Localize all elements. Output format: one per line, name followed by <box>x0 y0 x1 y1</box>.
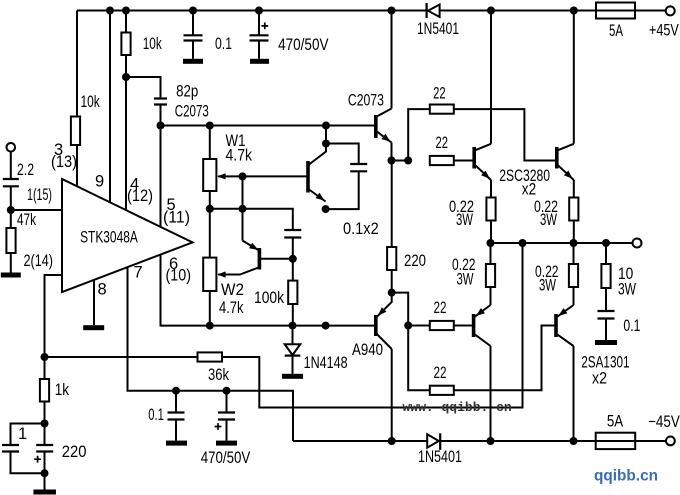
transistor Q1 C2073 (driver NPN) <box>376 109 392 143</box>
junction <box>388 157 396 165</box>
svg-text:47k: 47k <box>17 211 37 229</box>
wire 1k to 220 cap <box>44 402 46 446</box>
resistor 22 #3 <box>430 321 454 330</box>
svg-text:22: 22 <box>434 364 447 382</box>
junction <box>206 205 214 213</box>
wire +45V top rail <box>77 10 666 12</box>
svg-text:1N4148: 1N4148 <box>304 354 348 372</box>
wire 2SC3280 right collector <box>573 11 575 144</box>
junction <box>122 73 130 81</box>
wire bias base to 100k node <box>259 258 292 260</box>
svg-text:3W: 3W <box>456 211 473 229</box>
wire wiper tie-down <box>242 176 244 240</box>
wire rail to 0.1 cap <box>192 11 194 36</box>
svg-text:9: 9 <box>95 173 104 191</box>
svg-text:0.1x2: 0.1x2 <box>343 220 379 238</box>
wire cap B to 100k <box>292 238 294 281</box>
junction <box>487 437 495 445</box>
junction <box>41 353 49 361</box>
terminal output <box>633 239 642 248</box>
junction <box>322 205 330 213</box>
wire cap link <box>326 144 359 165</box>
wire to 22 upper <box>408 109 430 160</box>
wire emitter node to 220 <box>391 161 393 248</box>
wire feedback node to 36k <box>45 356 198 358</box>
wire output to 0.22 lower-left <box>490 243 492 264</box>
svg-text:1k: 1k <box>55 381 70 399</box>
wire 10k to pin 3 <box>76 145 78 186</box>
junction <box>602 239 610 247</box>
wire A940 emitter to base resistors <box>392 293 430 391</box>
wire top-left drop to 10k <box>76 11 78 117</box>
diode 1N5401 (bottom) <box>427 433 440 450</box>
junction <box>487 7 495 15</box>
wire neg line to 0.1 cap <box>175 391 177 413</box>
junction <box>404 157 412 165</box>
resistor 47k <box>6 228 15 253</box>
svg-text:82p: 82p <box>176 82 198 100</box>
ground (470/50V top) <box>250 59 269 64</box>
svg-text:(11): (11) <box>163 209 190 227</box>
svg-text:470/50V: 470/50V <box>278 36 328 54</box>
resistor 10 3W <box>601 264 610 288</box>
svg-text:22: 22 <box>434 299 447 317</box>
svg-text:−45V: −45V <box>648 413 680 431</box>
wire 10 3W to 0.1 <box>605 288 607 311</box>
wire node4 to 82p <box>126 77 161 99</box>
wire output to 0.22 lower-right <box>573 243 575 264</box>
resistor 22 #1 <box>430 105 454 114</box>
wire 47k to ground <box>10 253 12 273</box>
svg-text:3W: 3W <box>539 277 556 295</box>
junction <box>570 7 578 15</box>
svg-text:1(15): 1(15) <box>27 186 52 204</box>
wire W1 to W2 <box>209 191 211 258</box>
svg-text:4.7k: 4.7k <box>219 299 244 317</box>
svg-text:C2073: C2073 <box>175 103 209 121</box>
svg-text:+45V: +45V <box>649 22 679 40</box>
terminal +45V <box>666 6 675 15</box>
wire 220 cap to ground <box>44 452 46 490</box>
ground (470/50V lower) <box>216 441 237 446</box>
svg-text:7: 7 <box>134 263 143 281</box>
junction <box>322 322 330 330</box>
capacitor 0.1x2 A <box>350 164 367 171</box>
ground (0.1 lower-left) <box>166 441 187 446</box>
wire node to pin 1 <box>11 209 62 211</box>
potentiometer W1 4.7k <box>203 159 225 191</box>
wire 22 to right 2SA1301 base <box>454 326 556 391</box>
wire 82p to pin 5 <box>160 105 162 227</box>
wire 0.1 cap to ground <box>192 41 194 59</box>
wire 100k to pin6 line <box>292 304 294 326</box>
junction <box>7 206 15 214</box>
resistor 22 #2 <box>430 156 454 165</box>
wire pin 8 to ground <box>93 280 95 325</box>
junction <box>289 322 297 330</box>
wire 470/50V to ground <box>258 41 260 59</box>
capacitor 1 <box>2 445 19 452</box>
wire 2SC3280 left emitter <box>490 180 492 198</box>
wire 36k to output (feedback) <box>222 243 523 408</box>
wire 0.1 to ground <box>605 319 607 341</box>
svg-text:4.7k: 4.7k <box>226 147 253 165</box>
transistor bias NPN (upper) <box>308 126 326 202</box>
ground (input) <box>1 273 21 278</box>
wire 0.22 to output <box>490 221 492 244</box>
junction <box>239 205 247 213</box>
svg-text:STK3048A: STK3048A <box>80 228 138 246</box>
ground (220) <box>33 490 56 495</box>
svg-text:470/50V: 470/50V <box>201 449 251 467</box>
junction <box>255 7 263 15</box>
junction <box>289 255 297 263</box>
junction <box>223 387 231 395</box>
wire 10k to pin 4 <box>125 55 127 210</box>
wire C2073 collector to rail <box>391 11 393 109</box>
junction <box>404 322 412 330</box>
wire 2SC3280 right emitter <box>573 180 575 198</box>
wire pin 6 line <box>161 255 376 326</box>
svg-text:10k: 10k <box>81 93 101 111</box>
junction <box>388 7 396 15</box>
wire cap 1 bottom <box>11 452 45 474</box>
resistor 1k <box>40 379 49 402</box>
wire node to 1N4148 <box>292 326 294 344</box>
wire pin 9 line <box>109 11 111 203</box>
junction <box>206 122 214 130</box>
wire W2 to pin6 line <box>209 291 211 326</box>
ground (1N4148) <box>282 374 303 379</box>
junction <box>570 437 578 445</box>
resistor 10k (pin4) <box>121 33 130 56</box>
junction <box>106 7 114 15</box>
junction <box>41 420 49 428</box>
potentiometer W2 4.7k <box>203 258 225 291</box>
junction <box>322 122 330 130</box>
wire node to 1k <box>44 357 46 379</box>
terminal -45V <box>666 437 675 446</box>
fuse 5A (-45V) <box>596 433 636 449</box>
diode 1N4148 <box>285 344 301 355</box>
wire -45V bottom rail <box>293 440 666 442</box>
svg-text:3W: 3W <box>618 281 636 299</box>
junction <box>487 239 495 247</box>
svg-text:x2: x2 <box>522 180 536 198</box>
junction <box>239 172 247 180</box>
resistor 22 #4 <box>430 386 454 395</box>
junction <box>172 387 180 395</box>
svg-text:220: 220 <box>62 443 87 461</box>
svg-text:x2: x2 <box>592 370 607 388</box>
resistor 0.22 3W #2 <box>569 198 578 221</box>
transistor bias PNP (lower) <box>218 241 259 275</box>
svg-text:3W: 3W <box>457 271 474 289</box>
capacitor 2.2 <box>3 179 19 186</box>
junction <box>322 140 330 148</box>
wire branch to cap 1 <box>11 424 45 446</box>
capacitor 82p <box>154 99 167 105</box>
junction <box>206 322 214 330</box>
wire 0.22 to output rail <box>573 221 575 244</box>
svg-text:A940: A940 <box>352 341 383 359</box>
svg-text:5A: 5A <box>607 412 623 430</box>
junction <box>122 7 130 15</box>
junction <box>189 7 197 15</box>
ground (output 0.1) <box>595 340 617 345</box>
wire W1 wiper <box>218 175 308 177</box>
capacitor 0.1x2 B <box>284 230 301 238</box>
resistor 100k <box>288 281 297 304</box>
svg-text:3W: 3W <box>540 211 557 229</box>
transistor Q4 2SC3280 (right) <box>557 144 574 180</box>
wire to 22 lower-mid <box>408 325 430 327</box>
svg-text:(10): (10) <box>166 266 192 284</box>
svg-text:0.1: 0.1 <box>148 406 164 424</box>
terminal input <box>7 143 16 152</box>
wire drive line to C2073 base <box>161 125 376 127</box>
wire 1N4148 to ground <box>292 357 294 374</box>
svg-text:0.1: 0.1 <box>215 35 232 53</box>
capacitor 0.1 (top) <box>184 35 203 40</box>
wire output rail <box>491 242 633 244</box>
resistor 10k (pin3) <box>71 117 80 146</box>
svg-text:8: 8 <box>98 280 107 298</box>
wire A940 collector to rail <box>391 349 393 441</box>
wire 22 to left output base <box>454 160 474 162</box>
fuse 5A (+45V) <box>596 3 635 19</box>
svg-text:10k: 10k <box>143 35 163 53</box>
op-amp U1 STK3048A <box>62 179 193 292</box>
svg-text:22: 22 <box>436 134 449 152</box>
wire 22 to 2SA1301 base <box>454 325 474 327</box>
resistor 220 <box>387 247 396 270</box>
svg-text:1N5401: 1N5401 <box>418 448 462 466</box>
wire 0.22 to 2SA1301 emitter r <box>573 287 575 305</box>
resistor 0.22 3W #4 <box>569 264 578 287</box>
transistor Q2 A940 (driver PNP) <box>376 293 392 349</box>
capacitor 470/50V (top) <box>250 23 269 41</box>
diode 1N5401 (top) <box>427 3 440 18</box>
svg-text:100k: 100k <box>254 289 285 307</box>
svg-text:(12): (12) <box>127 187 153 205</box>
junction <box>570 239 578 247</box>
wire 0.22 to 2SA1301 emitter <box>490 287 492 305</box>
wire 2SC3280 left collector <box>490 11 492 144</box>
wire pin 2 to feedback node <box>45 275 63 357</box>
wire drive line to W1 <box>209 126 211 160</box>
wire 22 to right output base <box>454 109 557 160</box>
ground (pin 8) <box>83 325 104 330</box>
junction <box>519 239 527 247</box>
wire cap A bottom <box>326 171 359 209</box>
svg-text:www. qqibb. cn: www. qqibb. cn <box>403 400 512 415</box>
transistor Q6 2SA1301 (right) <box>556 305 574 346</box>
wire C2073 emitter node <box>392 143 409 161</box>
transistor Q5 2SA1301 (left) <box>474 305 491 346</box>
wire pin 7 to negative rail <box>128 267 294 441</box>
junction <box>41 469 49 477</box>
svg-text:C2073: C2073 <box>348 91 384 109</box>
svg-text:W2: W2 <box>221 281 244 299</box>
capacitor 470/50V (lower) <box>215 413 235 430</box>
wire 2SA1301 r collector to rail <box>573 346 575 441</box>
svg-text:0.1: 0.1 <box>623 317 640 335</box>
resistor 0.22 3W #1 <box>486 198 495 221</box>
wire input jack to 2.2 cap <box>10 152 12 179</box>
capacitor 0.1 (output) <box>598 311 615 319</box>
wire 2SA1301 collector to rail <box>490 346 492 441</box>
svg-text:22: 22 <box>433 85 446 103</box>
svg-text:2.2: 2.2 <box>17 161 34 179</box>
wire neg line to 470/50V <box>226 391 228 413</box>
svg-text:qqibb.cn: qqibb.cn <box>594 468 658 485</box>
svg-text:2(14): 2(14) <box>24 252 54 270</box>
transistor Q3 2SC3280 (left) <box>474 144 491 180</box>
svg-text:1N5401: 1N5401 <box>417 20 459 38</box>
wire mid node <box>210 209 293 230</box>
wire output to 10 3W <box>605 243 607 264</box>
wire rail to 470/50V cap <box>258 11 260 36</box>
capacitor 0.1 (lower-left) <box>168 413 185 420</box>
svg-text:(13): (13) <box>51 153 77 171</box>
ground (0.1 top) <box>183 59 203 64</box>
wire 0.1 cap to ground <box>175 420 177 441</box>
svg-text:1: 1 <box>18 425 27 443</box>
wire rail to 10k (pin4) <box>125 11 127 33</box>
junction <box>388 437 396 445</box>
junction <box>388 289 396 297</box>
wire 470/50V to ground <box>226 420 228 441</box>
junction <box>157 122 165 130</box>
wire 220 to A940 emitter <box>391 270 393 293</box>
svg-text:220: 220 <box>404 252 426 270</box>
resistor 36k <box>198 352 223 361</box>
resistor 0.22 3W #3 <box>486 264 495 287</box>
svg-text:36k: 36k <box>208 366 230 384</box>
wire 2.2 cap to 47k <box>10 186 12 228</box>
capacitor 220 electrolytic <box>34 445 53 463</box>
svg-text:5A: 5A <box>609 22 623 40</box>
